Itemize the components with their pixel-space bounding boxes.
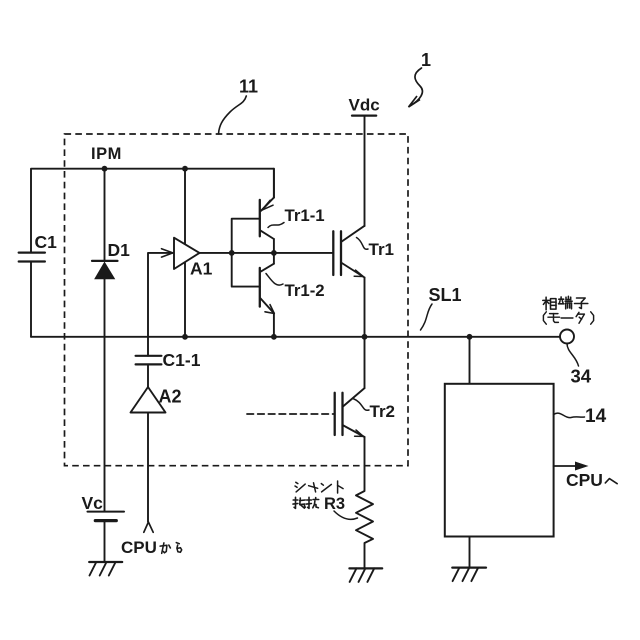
transistor Tr1-1 (upper of push-pull pair) <box>259 200 261 236</box>
leader for SL1 <box>421 304 433 330</box>
terminal 34 (phase terminal to motor) <box>560 330 574 344</box>
wire push-pull base column <box>232 219 260 287</box>
svg-text:CPU: CPU <box>566 470 603 490</box>
svg-text:R3: R3 <box>324 495 345 513</box>
wire Tr1-2 emitter to SL1 rail <box>273 313 275 337</box>
leader for Tr1-2 <box>266 274 283 286</box>
svg-text:IPM: IPM <box>91 145 122 163</box>
wire D1 anode down to Vc battery (crosses SL1 rail, no connection) <box>104 279 106 512</box>
ground under R3 <box>349 567 382 569</box>
capacitor C1 <box>19 252 45 254</box>
wire C1-1 to A2 output <box>147 364 149 387</box>
svg-text:14: 14 <box>585 406 607 427</box>
leader for label 11 <box>219 96 247 134</box>
svg-text:Tr1-2: Tr1-2 <box>285 281 325 300</box>
op-amp buffer A1 <box>174 238 200 269</box>
wire SL1 output rail <box>31 336 560 338</box>
leader for label 34 <box>567 344 579 367</box>
battery Vc (control supply) <box>88 511 125 513</box>
svg-text:C1-1: C1-1 <box>163 350 201 370</box>
leader for Tr2 <box>353 399 369 411</box>
transistor Tr2 (low-side IGBT) <box>334 393 336 435</box>
svg-text:Tr1-1: Tr1-1 <box>285 206 325 225</box>
junction top rail / A1 supply <box>182 166 188 172</box>
wire Tr1 emitter to SL1 rail <box>364 278 366 337</box>
svg-text:A2: A2 <box>159 387 182 407</box>
junction SL1 / current detector branch <box>467 334 473 340</box>
wire Tr2 emitter to shunt resistor R3 <box>364 437 366 491</box>
wire Tr1-1 collector to top rail <box>273 169 275 198</box>
junction top rail / D1 <box>102 166 108 172</box>
svg-text:D1: D1 <box>108 240 131 260</box>
wire D1 cathode to top rail <box>104 169 106 261</box>
wire R3 to ground <box>364 543 366 568</box>
transistor Tr1-2 (lower of push-pull pair) <box>259 268 261 307</box>
ground under block 14 <box>452 566 486 568</box>
diode D1 (bootstrap diode) <box>92 260 118 262</box>
svg-text:C1: C1 <box>35 232 58 252</box>
leader for label 14 <box>554 413 585 418</box>
wire C1 bottom to SL1 rail <box>30 262 32 337</box>
ground under Vc <box>89 561 122 563</box>
block 14 (current detection circuit) <box>445 384 554 537</box>
wire Tr2 collector to SL1 rail <box>364 337 366 388</box>
junction SL1 / A1 supply <box>182 334 188 340</box>
IPM module boundary 11 (dashed box) <box>65 134 409 466</box>
label shunt resistor R3 <box>296 482 298 483</box>
svg-text:Tr2: Tr2 <box>370 402 396 421</box>
dashed gate lead of Tr2 (from low-side driver, not shown) <box>247 413 335 415</box>
junction SL1 / Tr1 emitter Tr2 collector <box>362 334 368 340</box>
svg-text:Vc: Vc <box>82 493 104 513</box>
svg-text:Vdc: Vdc <box>349 96 380 115</box>
junction push-pull emitters / gate line <box>271 250 277 256</box>
off-page connector from CPU (fork) <box>144 522 153 532</box>
svg-text:CPU: CPU <box>121 538 157 557</box>
wire A1 supply column (top rail to SL1 rail, passes behind A1) <box>184 169 186 337</box>
power symbol Vdc <box>352 114 376 116</box>
op-amp buffer A2 <box>131 387 166 413</box>
arrowhead of label 1 leader <box>409 96 421 107</box>
wire A1 output to Tr1 gate line <box>200 252 334 254</box>
capacitor C1-1 (coupling) <box>136 355 162 357</box>
arrowhead at A1 input <box>162 249 173 257</box>
svg-text:34: 34 <box>571 366 592 387</box>
svg-text:A1: A1 <box>190 259 213 279</box>
leader for Tr1-1 <box>268 223 284 228</box>
transistor Tr1 (high-side IGBT) <box>332 231 334 275</box>
leader for shunt resistor label <box>334 511 358 519</box>
resistor R3 (shunt) <box>356 491 373 543</box>
svg-text:SL1: SL1 <box>429 285 462 305</box>
arrow leader for label 1 <box>411 68 423 106</box>
junction A1 output / push-pull bases <box>229 250 235 256</box>
label phase terminal (motor) <box>545 297 547 310</box>
wire SL1 to current detector 14 <box>469 337 471 384</box>
wire A1 input from C1-1 column <box>148 253 173 356</box>
svg-text:Tr1: Tr1 <box>369 240 395 259</box>
wire Vc to ground <box>104 521 106 562</box>
arrow output to CPU <box>554 465 581 467</box>
junction Tr1-2 emitter / SL1 rail <box>271 334 277 340</box>
wire top bootstrap rail <box>31 169 274 253</box>
svg-text:11: 11 <box>239 77 258 97</box>
wire push-pull center column <box>273 239 275 264</box>
wire Vdc down to Tr1 collector <box>364 116 366 226</box>
leader for Tr1 <box>357 238 369 250</box>
wire block 14 to ground <box>469 537 471 568</box>
svg-text:1: 1 <box>421 50 431 70</box>
wire A2 input from CPU <box>147 413 149 522</box>
